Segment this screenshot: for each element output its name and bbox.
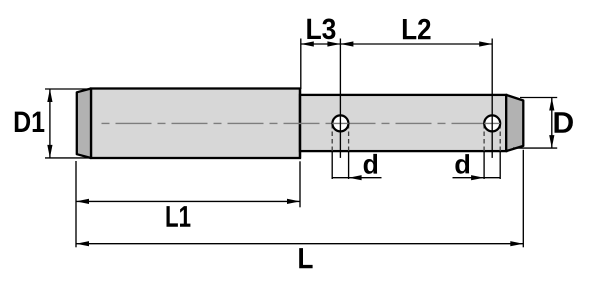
label L2 <box>403 19 431 40</box>
d2 extension line left <box>483 151 485 179</box>
hole 1 center mark <box>332 122 348 124</box>
L1 arrow left <box>76 199 89 204</box>
dimension line D <box>551 98 553 149</box>
d1 arrow <box>349 175 362 180</box>
d2 extension line right <box>499 151 501 179</box>
label D1 <box>15 112 45 132</box>
label D <box>555 112 573 133</box>
hole 1 hidden dashed line left <box>331 124 333 151</box>
right chamfered end cap <box>506 95 523 151</box>
shaft small-diameter body <box>300 95 506 151</box>
extension line at step for L3 <box>300 39 302 90</box>
D1 bottom extension line <box>45 157 91 159</box>
D1 top extension line <box>45 88 91 90</box>
L3 arrow left <box>301 41 314 46</box>
dimension line d2 <box>484 177 500 179</box>
d1 extension line left <box>331 151 333 179</box>
hole 2 hidden dashed line right <box>499 124 501 151</box>
hole 1 circle <box>332 115 348 131</box>
dimension line L3 <box>301 43 341 45</box>
extension line through hole 2 (L2/d reference) <box>491 39 493 158</box>
dimension line L2 <box>340 43 492 45</box>
left extension line for L1/L <box>75 161 77 247</box>
L3 arrow right <box>327 41 340 46</box>
D top extension line <box>520 97 557 99</box>
left chamfered end cap <box>77 89 91 159</box>
L arrow right <box>510 241 523 246</box>
hole 2 hidden dashed line left <box>483 124 485 151</box>
L2 arrow right <box>479 41 492 46</box>
right end extension line for L <box>522 150 524 248</box>
label L3 <box>307 19 335 40</box>
D arrow down <box>549 135 554 148</box>
label L1 <box>167 206 191 227</box>
label d1 <box>364 154 377 174</box>
centerline <box>102 122 501 124</box>
dimension line L1 <box>76 200 300 202</box>
step face line <box>299 89 301 159</box>
d1 extension line right <box>348 151 350 179</box>
L arrow left <box>76 241 89 246</box>
L2 arrow left <box>340 41 353 46</box>
D arrow up <box>549 98 554 111</box>
dimension line d1 <box>332 177 348 179</box>
step extension line for L1 <box>299 161 301 207</box>
label d2 <box>455 154 469 174</box>
D bottom extension line <box>513 147 557 149</box>
hole 1 hidden dashed line right <box>348 124 350 151</box>
L1 arrow right <box>287 199 300 204</box>
hole 2 center mark <box>484 122 500 124</box>
D1 arrow down <box>47 145 52 158</box>
hole 2 circle <box>484 115 500 131</box>
d2 arrow <box>471 175 484 180</box>
dimension line D1 <box>49 89 51 158</box>
label L <box>299 248 312 268</box>
d2 leader line <box>453 177 485 179</box>
dimension line L <box>76 243 523 245</box>
d1 leader line <box>349 177 382 179</box>
D1 arrow up <box>47 89 52 102</box>
shaft large-diameter body <box>91 89 300 159</box>
extension line through hole 1 (L3/L2/d reference) <box>339 39 341 158</box>
